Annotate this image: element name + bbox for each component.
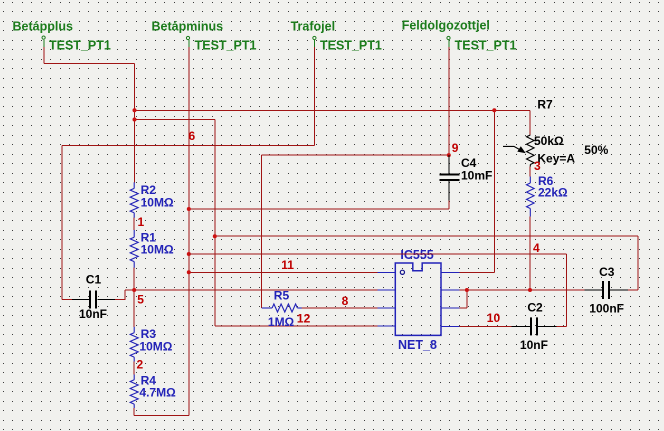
- wire vertical x262 to R5: [261, 155, 263, 308]
- svg-text:4.7MΩ: 4.7MΩ: [139, 386, 176, 400]
- test point TP2 Betápminus: [186, 36, 189, 47]
- junction node 9 at C4: [447, 153, 451, 157]
- svg-text:10MΩ: 10MΩ: [141, 242, 174, 256]
- wire row y272 to pin1 left: [189, 271, 377, 273]
- svg-text:1MΩ: 1MΩ: [268, 315, 295, 329]
- test point TP4 Feldolgozottjel: [447, 36, 450, 47]
- svg-text:4: 4: [533, 241, 540, 255]
- wire pin4 right to C2: [460, 325, 512, 327]
- wire vertical x62 to C1: [61, 145, 63, 299]
- resistor R5: [262, 304, 302, 312]
- junction at R7 top tee: [492, 108, 496, 112]
- IC555 pin1 marker circle: [400, 270, 404, 274]
- svg-text:TEST_PT1: TEST_PT1: [455, 38, 517, 52]
- wire row y145: [62, 144, 315, 146]
- junction node 5 at C1: [132, 288, 136, 292]
- resistor R2: [130, 182, 138, 217]
- wire vertical x566: [566, 254, 568, 326]
- svg-text:10mF: 10mF: [461, 169, 492, 183]
- svg-text:IC555: IC555: [400, 248, 433, 262]
- wire row y110 continuation to R7: [494, 109, 530, 111]
- svg-text:Betápplus: Betápplus: [13, 20, 73, 34]
- junction node 4 at R6 bottom: [528, 288, 532, 292]
- svg-text:100nF: 100nF: [589, 301, 624, 315]
- junction on Betapplus net at row 110: [133, 108, 137, 112]
- svg-text:50%: 50%: [584, 143, 608, 157]
- svg-text:TEST_PT1: TEST_PT1: [320, 38, 382, 52]
- svg-text:Trafojel: Trafojel: [291, 20, 335, 34]
- svg-text:22kΩ: 22kΩ: [538, 186, 568, 200]
- wire vertical x638: [637, 236, 639, 290]
- svg-text:NET_8: NET_8: [398, 338, 437, 352]
- wire row 254 overlay crossing IC555 label: [189, 253, 567, 255]
- svg-text:5: 5: [137, 293, 144, 307]
- svg-text:9: 9: [452, 141, 459, 155]
- junction at row 236 tee: [213, 234, 217, 238]
- wire pin3 elbow vertical: [466, 290, 468, 308]
- svg-text:6: 6: [189, 129, 196, 143]
- wire pin5 horizontal: [460, 271, 495, 273]
- svg-text:8: 8: [342, 294, 349, 308]
- svg-text:Betápminus: Betápminus: [152, 20, 224, 34]
- wire pin3 elbow horizontal: [460, 307, 467, 309]
- IC555 left pin stubs: [377, 272, 395, 326]
- wire Betápplus down to R2: [134, 63, 136, 182]
- wire C1 left stub: [62, 298, 72, 300]
- wire Betápplus horizontal elbow: [44, 62, 135, 64]
- wire C3 right connection: [628, 289, 638, 291]
- wire pin2 right row y290: [460, 289, 585, 291]
- wire row y119: [135, 119, 215, 121]
- svg-text:2: 2: [137, 358, 144, 372]
- wire R1-R3 red segment: [133, 268, 135, 327]
- op-amp U1 IC555 body: [395, 263, 441, 335]
- svg-text:Key=A: Key=A: [537, 152, 575, 166]
- junction node 4 at pin elbow: [465, 288, 469, 292]
- svg-text:10MΩ: 10MΩ: [141, 195, 174, 209]
- wire row y236: [215, 235, 638, 237]
- resistor R3: [130, 327, 138, 362]
- wire R5 to pin3 left: [302, 307, 378, 309]
- junction node 6 at row 272: [187, 270, 191, 274]
- wire node 1 segment: [133, 218, 135, 230]
- wire R4 bottom lead drop: [133, 408, 135, 416]
- svg-text:1: 1: [138, 215, 145, 229]
- wire Trafojel vertical: [313, 47, 315, 145]
- svg-text:TEST_PT1: TEST_PT1: [49, 38, 111, 52]
- junction on Betapplus net at row 119: [133, 118, 137, 122]
- junction node 6 at row 209: [187, 207, 191, 211]
- svg-text:R5: R5: [274, 289, 290, 303]
- wire Betápminus vertical x188: [188, 47, 190, 416]
- resistor R6: [527, 177, 535, 217]
- IC555 right pin stubs: [441, 272, 460, 326]
- svg-text:Feldolgozottjel: Feldolgozottjel: [402, 19, 490, 33]
- wire row y326 to pin4 left: [215, 325, 377, 327]
- capacitor C1: [72, 298, 115, 300]
- svg-text:12: 12: [297, 312, 311, 326]
- potentiometer R7: [503, 135, 534, 167]
- wire row y209 to C4 bottom: [189, 208, 449, 210]
- wire bottom loop horizontal y416: [134, 415, 189, 417]
- wire R6 bottom to row290: [529, 217, 531, 291]
- wire vertical x494 to pin5: [493, 110, 495, 272]
- svg-text:3: 3: [534, 159, 541, 173]
- svg-text:10nF: 10nF: [520, 338, 548, 352]
- wire row y155: [262, 154, 449, 156]
- capacitor C3: [584, 289, 628, 291]
- svg-text:TEST_PT1: TEST_PT1: [195, 38, 257, 52]
- resistor R1: [130, 230, 138, 268]
- test point TP1 Betápplus: [42, 36, 45, 47]
- svg-text:C3: C3: [599, 265, 615, 279]
- svg-text:10MΩ: 10MΩ: [139, 339, 172, 353]
- wire row y290 net 5: [125, 289, 377, 291]
- capacitor C2: [512, 325, 557, 327]
- svg-text:R7: R7: [537, 98, 553, 112]
- wire Feldolgozottjel vertical: [448, 47, 450, 155]
- resistor R4: [130, 375, 138, 409]
- wire C2 right stub: [557, 325, 567, 327]
- wire Betápplus vertical drop: [43, 47, 45, 63]
- potentiometer R7 wiper arrowhead: [517, 146, 526, 153]
- wire vertical x215: [214, 120, 216, 327]
- wire row y254: [189, 253, 567, 255]
- svg-text:C1: C1: [86, 273, 102, 287]
- junction node 6 at row 254: [187, 252, 191, 256]
- capacitor C4: [448, 155, 450, 200]
- wire R7 top lead drop: [529, 110, 531, 135]
- wire C4 bottom riser: [448, 201, 450, 210]
- wire C1 right jog: [115, 290, 125, 299]
- wire node 3 segment R7-R6: [529, 167, 531, 177]
- svg-text:C2: C2: [527, 301, 543, 315]
- svg-text:50kΩ: 50kΩ: [534, 134, 564, 148]
- svg-text:11: 11: [281, 258, 294, 272]
- wire node 2 segment: [133, 362, 135, 375]
- wire row y110 to R7 top: [135, 109, 495, 111]
- test point TP3 Trafojel: [313, 36, 316, 47]
- svg-text:10nF: 10nF: [79, 307, 107, 321]
- svg-text:10: 10: [487, 311, 501, 325]
